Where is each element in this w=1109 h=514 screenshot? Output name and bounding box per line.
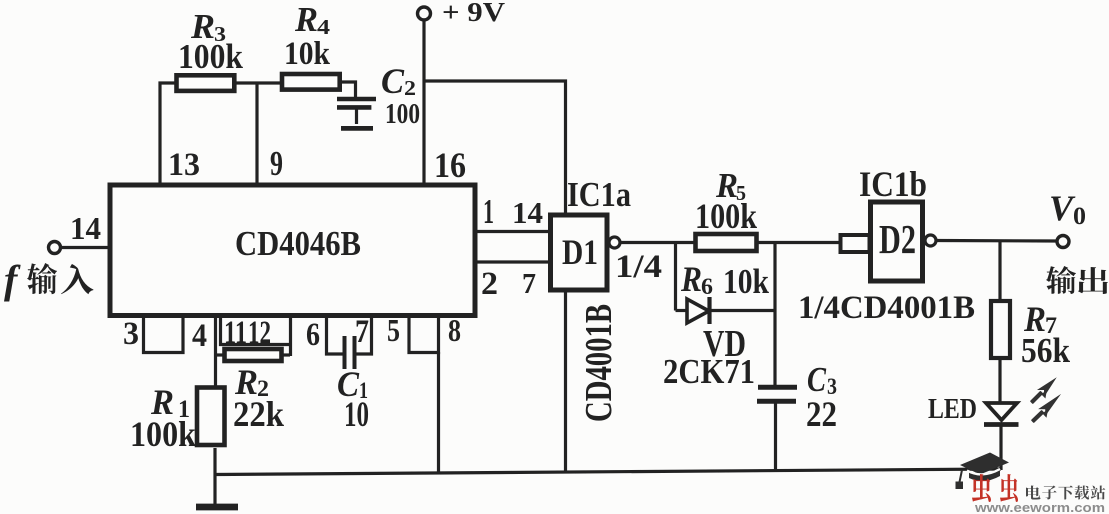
svg-text:6: 6 [306, 316, 320, 353]
wire: pins 1/14 to D1 input [475, 230, 553, 233]
svg-text:R: R [680, 259, 702, 299]
svg-text:3: 3 [123, 315, 139, 352]
bottom rail wire [215, 469, 1001, 475]
label R7 [1023, 299, 1057, 339]
svg-text:D1: D1 [562, 232, 598, 272]
gate D2 (IC1b) [871, 202, 923, 281]
ground [196, 448, 238, 507]
svg-text:10: 10 [344, 394, 369, 434]
label R4 value 10k [284, 35, 330, 72]
label f 输入 [4, 257, 93, 302]
svg-text:10k: 10k [284, 35, 330, 72]
label R4 [294, 0, 331, 39]
label R2 [234, 362, 269, 402]
svg-text:5: 5 [387, 313, 400, 348]
label R5 value 100k [695, 196, 758, 236]
label R1 value 100k [130, 414, 197, 454]
svg-text:100k: 100k [130, 414, 197, 454]
svg-text:6: 6 [701, 274, 713, 299]
wire: pin 4 down to R1 [214, 316, 217, 388]
svg-text:2: 2 [404, 76, 416, 100]
label IC1b [859, 164, 927, 204]
LED diode [984, 403, 1019, 425]
resistor R1 [197, 388, 225, 446]
D2 input stub [841, 235, 870, 252]
label C2 value 100 [385, 98, 420, 130]
label 1/4CD4001B [798, 289, 975, 326]
svg-text:4: 4 [192, 317, 207, 354]
IC CD4046B [110, 185, 475, 316]
pin label 11 [224, 314, 247, 351]
svg-text:D2: D2 [879, 217, 916, 262]
wire: R6 loop right drop to C3 [773, 243, 776, 388]
pin label 3 [123, 315, 139, 352]
D1 output bubble [609, 237, 620, 248]
label C3 value 22 [806, 394, 837, 434]
svg-text:www.eeworm.com: www.eeworm.com [974, 501, 1105, 514]
D2 output bubble [925, 235, 936, 246]
svg-text:11: 11 [224, 314, 247, 351]
svg-text:10k: 10k [723, 262, 770, 301]
pin label 12 [248, 314, 271, 351]
label R6 [680, 259, 713, 299]
wire: LED to bottom rail [999, 424, 1002, 470]
svg-text:8: 8 [448, 313, 461, 348]
svg-text:100k: 100k [695, 196, 758, 236]
label LED [928, 393, 977, 425]
pins 5-8 shorting U [409, 316, 439, 353]
label C2 [381, 61, 416, 101]
wire: D1 ground lead to bottom rail [564, 290, 567, 473]
pin label 13 [168, 146, 200, 183]
svg-text:2CK71: 2CK71 [663, 352, 755, 391]
resistor R3 [177, 75, 235, 91]
svg-text:100k: 100k [178, 37, 244, 76]
svg-text:14: 14 [70, 211, 101, 246]
pin 12 stub [289, 316, 292, 356]
label C3 [807, 360, 837, 399]
label VD [703, 323, 746, 365]
label R3 [190, 7, 226, 46]
svg-text:1/4CD4001B: 1/4CD4001B [798, 289, 975, 326]
input terminal [49, 242, 111, 254]
svg-text:V: V [1049, 188, 1076, 228]
svg-text:22: 22 [806, 394, 837, 434]
pin label 7 [522, 268, 536, 300]
pin label 16 [434, 145, 466, 185]
output terminal V0 [1057, 236, 1069, 248]
pin label 14 (input) [70, 211, 101, 246]
capacitor C3 [757, 387, 797, 401]
watermark graduation cap [956, 453, 1010, 490]
svg-text:CD4001B: CD4001B [578, 304, 620, 422]
wire: pins 2/7 to D1 input [475, 260, 553, 263]
capacitor C2 [337, 99, 376, 128]
wire: output node down to R7 [998, 241, 1001, 301]
svg-text:IC1a: IC1a [567, 175, 631, 214]
svg-text:22k: 22k [233, 394, 285, 434]
pin 11-12 connector [219, 343, 291, 346]
wire: R3 to R4 [236, 81, 282, 84]
label R7 value 56k [1021, 331, 1071, 370]
pin label 1 [483, 192, 494, 231]
svg-text:100: 100 [385, 98, 420, 130]
label C1 value 10 [344, 394, 369, 434]
wire: R5 to D2 [758, 241, 841, 244]
svg-text:9: 9 [270, 144, 283, 183]
pin label 5 [387, 313, 400, 348]
capacitor C1 [345, 336, 355, 369]
pin label 4 [192, 317, 207, 354]
label IC1a [567, 175, 631, 214]
wire: D1 output to R5 [620, 241, 695, 244]
wire: R7 to LED [998, 358, 1001, 403]
wire: +9V branch over to D1 supply pin [424, 81, 566, 217]
wire: C3 to bottom rail [774, 402, 777, 472]
label R6 value 10k [723, 262, 770, 301]
resistor R7 [991, 301, 1010, 358]
gate D1 (IC1a) [551, 215, 608, 290]
svg-text:2: 2 [481, 265, 498, 302]
svg-text:1/4: 1/4 [615, 248, 662, 285]
svg-text:56k: 56k [1021, 331, 1071, 370]
pins 3-4 shorting U [144, 316, 184, 353]
wire: pin 8 to bottom rail [437, 352, 440, 472]
+9V supply terminal [418, 0, 506, 27]
label V0 [1049, 188, 1086, 230]
watermark 虫虫 [972, 474, 1018, 502]
svg-text:12: 12 [248, 314, 271, 351]
svg-text:LED: LED [928, 393, 977, 425]
label R2 value 22k [233, 394, 285, 434]
resistor R5 [696, 234, 757, 251]
arrows [1028, 374, 1066, 427]
svg-text:+ 9V: + 9V [442, 0, 505, 27]
label C1 [337, 364, 368, 404]
label R5 [715, 166, 746, 205]
svg-text:IC1b: IC1b [859, 164, 927, 204]
pin label 6 [306, 316, 320, 353]
svg-text:C: C [381, 61, 405, 101]
svg-text:R: R [294, 0, 318, 39]
wire: R4 to C2 step [340, 82, 356, 99]
wire: R6 loop left drop [674, 243, 677, 311]
resistor R4 [282, 74, 340, 90]
resistor R2 [214, 349, 290, 361]
wire: +9V rail down to pin 16 [422, 20, 425, 186]
pin 11 stub [219, 316, 222, 346]
pin label 7 [355, 313, 369, 350]
wire: D2 output to V0 [936, 239, 1057, 243]
svg-text:14: 14 [512, 196, 543, 230]
svg-text:1: 1 [483, 192, 494, 231]
pin label 2 [481, 265, 498, 302]
pin label 9 [270, 144, 283, 183]
diode VD 2CK71 [676, 297, 776, 324]
label R3 value 100k [178, 37, 244, 76]
wire: pin 9 riser [255, 83, 258, 186]
svg-text:0: 0 [1073, 201, 1086, 230]
label 2CK71 [663, 352, 755, 391]
watermark 电子下载站 [1026, 485, 1105, 499]
label 输出 [1046, 266, 1108, 294]
pin 7 stub [356, 316, 372, 354]
svg-text:7: 7 [522, 268, 536, 300]
label R1 [150, 382, 190, 423]
label 1/4 [615, 248, 662, 285]
svg-text:16: 16 [434, 145, 466, 185]
label CD4001B (vertical) [578, 304, 620, 422]
pin label 14 [512, 196, 543, 230]
svg-text:13: 13 [168, 146, 200, 183]
svg-text:7: 7 [355, 313, 369, 350]
wire: pin 13 riser to R3 [160, 83, 175, 186]
svg-text:CD4046B: CD4046B [235, 224, 361, 263]
pin 6 stub [327, 316, 344, 354]
pin label 8 [448, 313, 461, 348]
watermark url [974, 501, 1105, 514]
